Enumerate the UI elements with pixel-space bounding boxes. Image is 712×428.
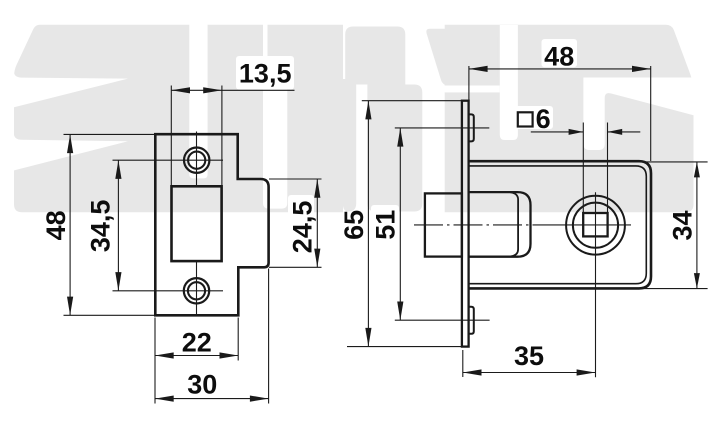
- svg-text:30: 30: [187, 369, 217, 399]
- svg-text:34: 34: [668, 210, 698, 240]
- svg-text:48: 48: [41, 210, 71, 240]
- svg-text:35: 35: [514, 341, 544, 371]
- svg-text:48: 48: [544, 42, 574, 72]
- svg-text:22: 22: [182, 327, 212, 357]
- svg-text:6: 6: [536, 104, 551, 134]
- svg-text:13,5: 13,5: [239, 58, 292, 88]
- svg-text:24,5: 24,5: [287, 201, 317, 254]
- svg-text:51: 51: [371, 210, 401, 240]
- svg-text:65: 65: [339, 210, 369, 240]
- svg-text:34,5: 34,5: [86, 200, 116, 253]
